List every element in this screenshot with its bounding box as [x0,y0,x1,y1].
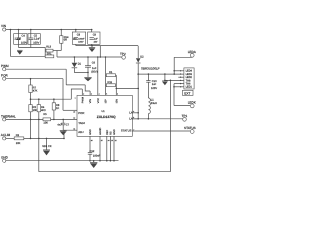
svg-text:GND: GND [89,129,92,135]
svg-text:POR: POR [1,73,8,77]
svg-text:R11: R11 [108,81,113,84]
svg-text:POR: POR [78,111,84,115]
svg-text:RS: RS [109,131,112,135]
svg-text:C7: C7 [66,123,70,126]
svg-text:1uF: 1uF [92,67,97,70]
svg-text:SBR3U100LP: SBR3U100LP [141,67,160,71]
svg-text:TP2: TP2 [120,52,126,56]
svg-text:ISN: ISN [115,99,118,103]
svg-text:STATUS: STATUS [121,129,132,133]
svg-text:1uF: 1uF [94,38,98,41]
svg-text:VIN: VIN [89,99,92,103]
svg-text:PWM: PWM [1,64,9,68]
svg-text:ISP: ISP [105,99,108,103]
svg-text:GND: GND [113,129,116,135]
svg-text:100V: 100V [33,41,39,44]
svg-text:33uH: 33uH [151,102,157,105]
svg-text:1uF: 1uF [152,83,157,86]
svg-text:REF: REF [106,129,109,134]
svg-text:10K: 10K [33,109,38,112]
svg-text:0R: 0R [64,39,67,42]
svg-text:R1: R1 [109,71,113,74]
svg-text:4n7: 4n7 [57,123,62,126]
svg-text:C12: C12 [90,150,95,153]
svg-text:47K: 47K [33,89,38,92]
svg-text:R13: R13 [46,45,51,48]
svg-text:C8: C8 [77,33,81,36]
svg-text:PWM: PWM [81,97,84,103]
svg-text:10V: 10V [94,40,98,43]
svg-text:R2: R2 [16,134,20,137]
svg-text:LED1: LED1 [186,86,193,89]
svg-text:C6: C6 [92,61,96,64]
svg-text:1K: 1K [56,107,59,110]
svg-text:TADJ: TADJ [78,121,85,125]
svg-text:SD1 CK: SD1 CK [42,145,52,148]
svg-text:THERMAL: THERMAL [1,114,16,118]
svg-text:2.2uF: 2.2uF [34,37,41,40]
svg-text:D1: D1 [78,62,82,65]
svg-text:VIN: VIN [1,24,6,28]
svg-text:AGND: AGND [99,127,102,134]
svg-text:VCC: VCC [97,98,100,103]
svg-text:ADJ: ADJ [78,130,84,134]
svg-text:LEDK: LEDK [188,101,197,105]
svg-text:D2: D2 [140,56,144,59]
svg-text:2.2uF: 2.2uF [15,37,22,40]
svg-text:100V: 100V [21,41,27,44]
svg-text:GND: GND [1,155,9,159]
svg-text:LEDA: LEDA [188,50,197,54]
svg-text:TP1: TP1 [182,114,188,118]
svg-text:100V: 100V [151,87,157,90]
svg-text:ZXLD1370Q: ZXLD1370Q [97,115,116,119]
svg-text:10K: 10K [43,122,48,125]
svg-text:ACLIM: ACLIM [1,133,11,137]
svg-text:5R1: 5R1 [47,53,52,56]
svg-text:STATUS: STATUS [184,126,196,130]
svg-text:C9: C9 [93,33,97,36]
svg-text:R5: R5 [43,113,47,116]
svg-text:100nF: 100nF [93,154,101,157]
svg-text:10K: 10K [16,142,21,145]
svg-text:4K3: 4K3 [41,109,46,112]
svg-text:100nF: 100nF [78,38,85,41]
svg-text:100V: 100V [78,40,84,43]
svg-text:(50V): (50V) [91,70,97,73]
svg-text:C4: C4 [22,35,26,38]
svg-text:EXT: EXT [184,92,190,96]
